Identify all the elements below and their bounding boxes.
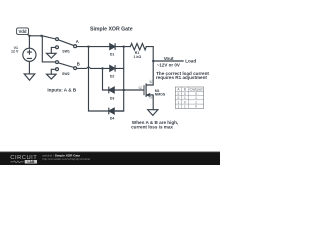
svg-text:A: A (76, 39, 79, 44)
svg-text:SW1: SW1 (62, 49, 70, 53)
svg-text:D3: D3 (110, 97, 115, 101)
svg-text:requires R1 adjustment: requires R1 adjustment (156, 75, 208, 80)
svg-text:LAB: LAB (28, 160, 35, 164)
svg-text:1: 1 (184, 105, 186, 109)
svg-text:Vdd: Vdd (18, 29, 26, 34)
svg-text:SW2: SW2 (62, 72, 70, 76)
svg-text:G: G (139, 86, 141, 90)
svg-text:D: D (150, 80, 152, 84)
svg-text:D1: D1 (110, 53, 115, 57)
svg-text:NMOS: NMOS (155, 92, 166, 96)
svg-text:http://circuitlab.com/c/t4qbqf: http://circuitlab.com/c/t4qbqfm/nbsbar (42, 157, 90, 161)
svg-text:Load: Load (185, 58, 196, 63)
svg-text:1 kΩ: 1 kΩ (133, 55, 141, 59)
svg-text:B: B (77, 61, 80, 66)
svg-text:S: S (150, 95, 152, 99)
svg-text:12 V: 12 V (11, 49, 19, 53)
svg-text:Vout: Vout (164, 56, 174, 61)
svg-text:~12V or 0V: ~12V or 0V (157, 62, 180, 67)
svg-text:1: 1 (178, 105, 180, 109)
svg-text:Simple XOR Gate: Simple XOR Gate (90, 26, 133, 32)
svg-text:Inputs: A & B: Inputs: A & B (47, 88, 76, 93)
svg-text:0: 0 (195, 105, 197, 109)
svg-text:D4: D4 (110, 116, 115, 120)
svg-text:D2: D2 (110, 75, 115, 79)
svg-text:current loss is max: current loss is max (131, 125, 173, 130)
